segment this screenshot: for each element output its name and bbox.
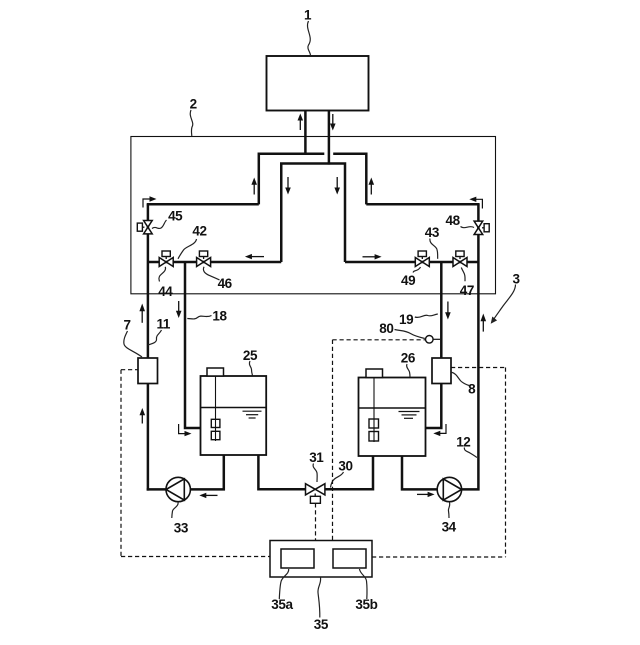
- dashed control line valve 31 to box 35: [315, 503, 317, 540]
- wire: pipe 18 from left row down to tank 25 inlet: [185, 262, 200, 428]
- tank 25 liquid level line: [201, 407, 267, 409]
- wire: right horizontal pipe y=204.2 from outer riser to valve48 riser: [366, 203, 479, 206]
- leader for 49: [413, 267, 421, 273]
- label 49: [401, 273, 415, 288]
- controller 35b: [333, 549, 366, 568]
- leader for 31: [313, 464, 317, 483]
- svg-text:80: 80: [379, 321, 393, 336]
- leader for 34: [448, 503, 449, 519]
- wire: left horizontal pipe y=204.2 from valve45 riser to outer riser: [147, 203, 259, 206]
- wire: bottom horizontal to pump 33: [147, 488, 167, 491]
- flow arrow up (pipe 11 above component 7): [139, 304, 145, 323]
- leader for 47: [461, 268, 465, 282]
- flow arrow down (inner left pipe): [285, 177, 291, 195]
- label 46: [218, 276, 233, 291]
- valve 45 (vertical two-way valve, actuator left): [137, 221, 152, 234]
- label 8: [468, 381, 476, 396]
- wire: upper horizontal manifold y=153.8 right segment: [333, 154, 366, 205]
- wire: tank 25 left stub down to pump line: [189, 455, 224, 489]
- tank 25 sensor square lower: [211, 431, 220, 439]
- tank 26 level sensor probe: [373, 378, 375, 443]
- thin L flow arrow at valve48 corner (up then left): [469, 197, 482, 209]
- svg-text:48: 48: [445, 213, 460, 228]
- svg-text:45: 45: [168, 209, 183, 224]
- label 1: [304, 8, 312, 23]
- leader for 26: [407, 364, 410, 377]
- valve 49 (horizontal valve, actuator top): [415, 251, 429, 267]
- tank 25 liquid surface symbol: [243, 411, 262, 418]
- tank 25 sensor square upper: [211, 419, 220, 427]
- valve 48 (vertical two-way valve, actuator right): [474, 221, 489, 234]
- valve 44 (horizontal valve, actuator top): [159, 251, 173, 267]
- dashed boundary: left dashed box: [121, 370, 270, 557]
- svg-text:12: 12: [456, 435, 470, 450]
- flow arrow down (pipe 18): [176, 301, 182, 318]
- valve 31 (horizontal valve, actuator below): [306, 484, 325, 504]
- wire: right pipe from box 1 down to inner manifold top: [328, 111, 331, 165]
- svg-text:31: 31: [309, 450, 324, 465]
- leader for 45: [152, 220, 167, 229]
- svg-text:47: 47: [460, 283, 474, 298]
- leader for 30: [331, 472, 344, 488]
- label 11: [157, 317, 171, 332]
- tank 26 liquid surface symbol: [399, 412, 420, 419]
- svg-text:43: 43: [425, 225, 440, 240]
- svg-text:33: 33: [174, 520, 189, 535]
- leader for label 2: [190, 110, 193, 136]
- tank 25 top cap: [207, 368, 224, 376]
- label 19: [399, 312, 413, 327]
- tank 26 liquid level line: [359, 407, 426, 409]
- pump 34 (circle with right-pointing triangle): [437, 477, 461, 501]
- label 35b: [355, 597, 377, 612]
- label 43: [425, 225, 440, 240]
- label 42: [192, 224, 206, 239]
- dashed boundary: center dashed line from sensor 80 to box 35: [333, 340, 426, 541]
- leader for 18: [187, 316, 211, 319]
- label 44: [158, 284, 173, 299]
- svg-text:18: 18: [212, 309, 227, 324]
- svg-text:26: 26: [401, 351, 416, 366]
- label 35: [314, 617, 329, 632]
- flow arrow down (beside right box1 pipe): [330, 114, 336, 131]
- flow arrow down (pipe 19): [445, 302, 451, 320]
- svg-text:1: 1: [304, 8, 312, 23]
- valve 46 (horizontal valve, actuator top): [197, 251, 211, 267]
- svg-text:3: 3: [512, 271, 520, 286]
- control box 35: [270, 541, 372, 578]
- wire: pipe 11 riser x=147.9 from row down through component 7 to pump corner: [147, 262, 150, 359]
- box 1 (heat source unit): [267, 56, 369, 111]
- leader for 33: [172, 502, 178, 518]
- label 31: [309, 450, 324, 465]
- svg-text:35: 35: [314, 617, 329, 632]
- flow arrow right (between tank 26 and pump 34): [417, 492, 435, 497]
- label 34: [442, 520, 457, 535]
- thin L flow arrow into tank 26 (down then left): [433, 424, 446, 436]
- svg-text:44: 44: [158, 284, 173, 299]
- leader for 46: [203, 267, 219, 280]
- label 2: [190, 96, 197, 111]
- svg-text:25: 25: [243, 348, 258, 363]
- flow arrow down (inner right pipe): [334, 177, 340, 195]
- leader for 43: [430, 239, 438, 259]
- flow arrow up (pipe 11 below component 7): [140, 408, 146, 424]
- svg-text:35a: 35a: [271, 597, 293, 612]
- dashed boundary: right dashed box: [372, 368, 506, 558]
- tank 26 sensor square lower: [369, 432, 379, 442]
- wire: tank 25 right stub down and right to valve 31: [258, 455, 305, 489]
- flow arrow up (on left outer riser x=258.8): [251, 178, 257, 195]
- thin L flow arrow into tank 25 (down then right): [179, 424, 192, 436]
- label 26: [401, 351, 416, 366]
- svg-text:42: 42: [192, 224, 206, 239]
- leader for 42: [178, 239, 197, 259]
- svg-text:7: 7: [123, 318, 130, 333]
- leader for 3 with arrowhead: [491, 285, 516, 324]
- controller 35a: [281, 549, 314, 568]
- svg-text:34: 34: [442, 520, 457, 535]
- wire: tank 26 left stub down and left to valve 31: [325, 456, 373, 489]
- label 45: [168, 209, 183, 224]
- leader for label 1: [307, 21, 310, 55]
- label 25: [243, 348, 258, 363]
- tank 26 sensor square upper: [369, 419, 379, 428]
- leader for 12: [464, 448, 477, 458]
- label 7: [123, 318, 130, 333]
- svg-text:35b: 35b: [355, 597, 377, 612]
- flow arrow left (above left row): [245, 254, 264, 259]
- wire: right valve row y=262: [345, 261, 478, 264]
- label 48: [445, 213, 460, 228]
- box 2 (distribution unit boundary): [131, 137, 496, 294]
- leader for 7: [124, 331, 142, 357]
- label 33: [174, 520, 189, 535]
- flow arrow left (between pump 33 and tank 25): [199, 493, 217, 498]
- tank 25: [201, 376, 267, 455]
- svg-text:2: 2: [190, 96, 197, 111]
- wire: inner manifold top edge and side pipes: [281, 164, 345, 263]
- label 80: [379, 321, 393, 336]
- leader for 35b: [360, 569, 368, 599]
- label 47: [460, 283, 474, 298]
- svg-text:11: 11: [157, 317, 171, 332]
- flow arrow right (above right row): [363, 254, 382, 259]
- leader for 44: [159, 267, 166, 282]
- wire: pipe 12 from valve48 riser down to pump 34: [462, 262, 479, 489]
- leader for 35: [318, 578, 321, 618]
- wire: pipe 19 from right row down through component 8 to tank 26 inlet: [440, 262, 443, 359]
- svg-text:19: 19: [399, 312, 413, 327]
- svg-text:30: 30: [338, 459, 352, 474]
- component 7 (heat exchanger): [138, 358, 158, 384]
- component 8 (heat exchanger) on pipe 19: [432, 358, 451, 384]
- leader for 80: [395, 330, 425, 339]
- valve 47 (horizontal valve, actuator top): [453, 251, 467, 267]
- thin L flow arrow at valve45 corner (up then right): [143, 196, 157, 207]
- flow arrow up (beside left box1 pipe): [298, 114, 304, 131]
- tank 26: [359, 378, 426, 457]
- label 35a: [271, 597, 293, 612]
- flow arrow up (pipe 12): [481, 314, 487, 332]
- flow arrow up (on right outer riser x=366.3): [369, 178, 375, 195]
- svg-text:8: 8: [468, 381, 476, 396]
- sensor 80 (circle) on pipe 19: [426, 336, 441, 344]
- svg-text:46: 46: [218, 276, 233, 291]
- wire: tank 26 right stub down to pump 34 line: [402, 456, 438, 489]
- label 30: [338, 459, 352, 474]
- leader for 8: [451, 372, 469, 386]
- svg-text:49: 49: [401, 273, 415, 288]
- wire: valve45 riser x=147.9 from corner through valve down to left row: [147, 204, 150, 262]
- tank 25 level sensor probe: [215, 376, 217, 441]
- leader for 48: [461, 227, 475, 228]
- label 18: [212, 309, 227, 324]
- pump 33 (circle with left-pointing triangle): [166, 477, 190, 501]
- leader for 25: [249, 361, 252, 376]
- leader for 35a: [279, 569, 288, 599]
- leader for 11: [148, 330, 162, 345]
- wire: valve48 riser x=478.4 from corner through valve down to right row: [477, 204, 480, 262]
- wire: left pipe from box 1 down to upper manifold: [304, 111, 307, 155]
- wire: upper horizontal manifold y=153.8 left segment (crossover gap at right pipe): [259, 154, 325, 205]
- leader for 19: [415, 314, 438, 317]
- tank 26 top cap: [366, 369, 383, 378]
- label 12: [456, 435, 470, 450]
- label 3: [512, 271, 520, 286]
- wire: left valve row y=262: [148, 261, 281, 264]
